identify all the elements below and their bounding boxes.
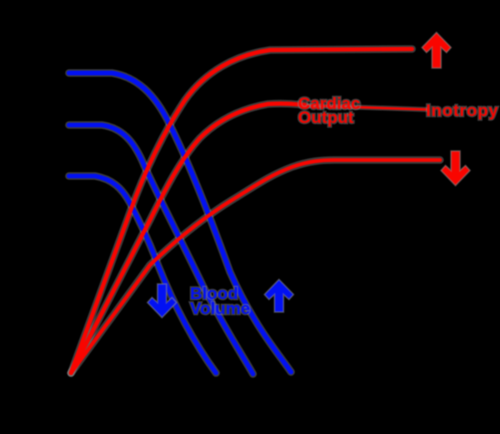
svg-text:Output: Output <box>298 108 354 127</box>
red cardiac output curve 2 (middle, normal) <box>71 104 305 373</box>
blue up arrow (increased blood volume) <box>265 280 294 313</box>
blue venous return curve 2: normal (middle plateau) <box>69 125 253 374</box>
blue venous return curve 1: increased blood volume (top plateau, right intercept) <box>69 73 291 372</box>
label: Cardiac Output <box>298 94 360 127</box>
label: Blood Volume <box>190 284 250 318</box>
blue down arrow (decreased blood volume) <box>148 284 177 318</box>
svg-text:Volume: Volume <box>190 299 250 318</box>
red cardiac output curve 1 (top, increased inotropy) <box>71 49 412 373</box>
label: Inotropy <box>426 101 499 120</box>
red connector line to Inotropy label <box>305 106 427 110</box>
red cardiac output curve 3 (bottom, decreased inotropy) <box>71 160 440 373</box>
red down arrow (decreased inotropy) <box>441 151 470 186</box>
halo strokes (gray anti-alias fringe) <box>69 49 440 374</box>
red up arrow (increased inotropy) <box>422 33 451 69</box>
blue venous return curve 3: decreased blood volume (bottom plateau, left intercept) <box>69 176 216 373</box>
svg-text:Inotropy: Inotropy <box>426 101 499 120</box>
